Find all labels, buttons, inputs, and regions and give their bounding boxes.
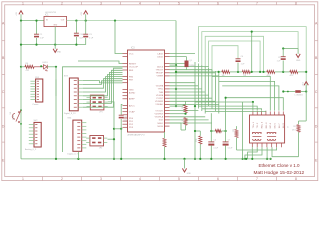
node: [120, 128, 122, 130]
svg-text:LACK: LACK: [157, 52, 163, 55]
svg-text:VDSPA: VDSPA: [156, 94, 164, 97]
svg-text:4: 4: [139, 2, 141, 6]
node: [242, 158, 244, 160]
svg-text:GND: GND: [53, 24, 58, 26]
wire: [170, 105, 186, 106]
svg-text:IN: IN: [46, 20, 48, 22]
svg-text:SH 7: SH 7: [279, 123, 281, 129]
resistor R2: [222, 70, 230, 77]
wire ground rail: [21, 158, 272, 160]
wire: [195, 130, 200, 132]
wire over jack 4: [226, 98, 284, 111]
svg-text:1 uF: 1 uF: [89, 38, 94, 40]
node: [282, 47, 284, 49]
svg-text:27R: 27R: [196, 138, 198, 142]
title text: [259, 163, 301, 168]
svg-text:L4931CZ33: L4931CZ33: [45, 12, 57, 14]
ground GND2: [182, 159, 191, 175]
svg-text:LED1: LED1: [43, 62, 49, 64]
svg-text:2: 2: [61, 2, 63, 6]
resistor R11: [182, 118, 187, 130]
node: [225, 158, 227, 160]
LED LED1: [43, 62, 49, 71]
wire: [251, 32, 253, 72]
wire to jack pin 4: [205, 110, 266, 113]
svg-text:GND: GND: [129, 89, 134, 91]
node: [194, 130, 196, 132]
wire: [251, 147, 253, 159]
svg-text:L1 BLM21: L1 BLM21: [295, 95, 303, 97]
svg-text:16MHz: 16MHz: [189, 65, 195, 67]
wire: [20, 14, 22, 20]
resistor R12: [196, 131, 202, 159]
ferrite bead L1: [295, 90, 303, 96]
resistor R14: [163, 132, 166, 159]
resistor R9: [292, 121, 300, 157]
svg-text:J1: J1: [286, 126, 288, 128]
capacitor C3: [83, 21, 94, 45]
svg-text:5: 5: [178, 177, 180, 181]
frame row and column labels: [2, 2, 318, 181]
svg-text:AREF: AREF: [129, 98, 135, 101]
capacitor C10: [74, 21, 84, 45]
node: [40, 65, 42, 67]
wire: [266, 147, 268, 159]
capacitor C7: [223, 131, 234, 159]
wire bundle digital 8-13 to IC: [83, 68, 123, 107]
node: [252, 101, 254, 103]
svg-text:7: 7: [256, 177, 258, 181]
wire: [221, 130, 225, 132]
svg-text:PB7: PB7: [129, 79, 134, 81]
wire bus loop 2: [202, 32, 298, 65]
svg-text:Analog_0_5: Analog_0_5: [25, 148, 37, 151]
jumper header JP1: [87, 95, 108, 113]
node: [282, 71, 284, 73]
svg-text:VDSPLE: VDSPLE: [154, 114, 163, 116]
svg-text:TRGUP: TRGUP: [155, 73, 163, 75]
svg-text:1 uF: 1 uF: [277, 60, 282, 62]
svg-text:GND: GND: [57, 52, 62, 54]
svg-text:GND: GND: [296, 60, 301, 62]
wire: [77, 152, 79, 159]
node: [194, 105, 196, 107]
crystal Q1: [185, 57, 196, 70]
svg-text:RD+ 3: RD+ 3: [261, 121, 263, 128]
svg-text:C3: C3: [89, 34, 93, 36]
svg-text:GND: GND: [187, 173, 192, 175]
node: [113, 138, 115, 140]
svg-text:TD- 2: TD- 2: [257, 122, 259, 128]
node: [20, 44, 22, 46]
connector SV2 analog header: [25, 120, 41, 151]
svg-text:JP1: JP1: [99, 111, 102, 113]
svg-text:1K: 1K: [182, 118, 184, 121]
node: [194, 158, 196, 160]
node: [225, 130, 227, 132]
wire to jack pin 2: [198, 106, 257, 111]
svg-text:VCAP: VCAP: [129, 111, 135, 114]
wire: [248, 147, 258, 159]
wire: [55, 67, 57, 159]
node: [54, 44, 56, 46]
svg-text:THOUT: THOUT: [156, 70, 164, 72]
svg-text:VDDRW: VDDRW: [155, 101, 164, 103]
svg-text:+9V: +9V: [16, 12, 18, 16]
svg-text:Digital_0_7: Digital_0_7: [67, 153, 78, 156]
svg-text:7: 7: [256, 2, 258, 6]
node: [199, 158, 201, 160]
svg-text:2: 2: [61, 177, 63, 181]
wire: [225, 98, 227, 131]
wire input rail: [21, 20, 44, 22]
resistor R6: [25, 63, 34, 72]
svg-text:Ethernet Clone v 1.0: Ethernet Clone v 1.0: [259, 163, 301, 168]
svg-text:AGND: AGND: [129, 91, 136, 94]
resistor R13: [233, 126, 238, 150]
node: [305, 71, 307, 73]
wire y131: [211, 130, 215, 132]
capacitor C11: [119, 104, 129, 158]
svg-text:Matt Hodge 15-02-2012: Matt Hodge 15-02-2012: [254, 170, 305, 176]
node: [77, 158, 79, 160]
svg-text:C4: C4: [241, 56, 243, 58]
wire: [85, 14, 87, 20]
wire: [175, 72, 177, 106]
node: [120, 158, 122, 160]
svg-text:+5V: +5V: [81, 12, 83, 16]
svg-text:ADC6: ADC6: [157, 65, 164, 68]
svg-text:SCK: SCK: [159, 120, 164, 122]
node: [237, 71, 239, 73]
svg-text:8: 8: [295, 2, 297, 6]
supply +9V arrow: [16, 11, 23, 16]
node: [114, 20, 116, 22]
wire gnd segment: [21, 44, 86, 46]
wire: [20, 21, 22, 67]
wire bus loop 3: [205, 36, 263, 72]
svg-text:VWER: VWER: [157, 76, 164, 78]
node: [251, 31, 253, 33]
node: [259, 71, 261, 73]
ground arrow right: [296, 49, 301, 63]
svg-text:VTODO: VTODO: [155, 110, 163, 112]
wire: [272, 147, 299, 157]
node: [175, 64, 177, 66]
node: [184, 113, 186, 115]
wire: [170, 123, 186, 130]
capacitor C6: [208, 131, 219, 159]
capacitor C9: [277, 57, 286, 72]
svg-text:RD- 6: RD- 6: [266, 122, 268, 128]
microcontroller IC3: [123, 48, 170, 137]
wire over jack 2: [219, 81, 275, 110]
wire +5V feed down: [175, 21, 177, 66]
svg-text:Power: Power: [33, 103, 39, 106]
wire mid row: [176, 71, 222, 73]
wire over jack 1: [215, 76, 270, 110]
svg-text:LBCK: LBCK: [157, 56, 163, 58]
capacitor C1: [34, 21, 44, 45]
wire: [283, 48, 298, 50]
svg-text:OUT: OUT: [61, 20, 66, 22]
wire bus vertical columns: [195, 62, 219, 114]
svg-text:C11: C11: [124, 116, 127, 118]
node: [183, 158, 185, 160]
connector SV4 digital 0-7 header: [67, 118, 86, 156]
resistor R5: [290, 70, 298, 77]
svg-text:RESET: RESET: [13, 113, 15, 120]
svg-text:0.1uF: 0.1uF: [228, 148, 233, 150]
wire: [170, 113, 186, 115]
svg-text:3: 3: [100, 177, 102, 181]
node: [113, 128, 115, 130]
jumper header JP2: [86, 136, 107, 150]
drawing frame: [2, 2, 318, 181]
svg-text:PD3: PD3: [129, 127, 134, 129]
svg-text:1: 1: [22, 177, 24, 181]
node: [175, 88, 177, 90]
node: [262, 71, 264, 73]
capacitor C4: [236, 56, 246, 72]
ethernet jack J1: [250, 111, 288, 147]
node: [245, 158, 247, 160]
svg-text:1uF: 1uF: [79, 37, 83, 39]
svg-text:TD+ 1: TD+ 1: [253, 121, 255, 128]
svg-text:OCULOF: OCULOF: [129, 67, 139, 69]
wire bus loop 1: [198, 27, 306, 92]
svg-text:VDDAU: VDDAU: [155, 103, 163, 106]
wire: [237, 147, 277, 150]
node: [20, 66, 22, 68]
svg-text:SV4: SV4: [67, 118, 72, 120]
node: [0, 0, 1, 1]
voltage regulator IC1: [44, 12, 67, 27]
svg-text:C9: C9: [278, 57, 280, 59]
wire: [242, 102, 244, 159]
wire: [175, 65, 177, 72]
svg-text:8: 8: [295, 177, 297, 181]
svg-text:VCC: VCC: [129, 53, 134, 55]
wire y61: [78, 61, 123, 64]
wire bus loop 5: [212, 46, 238, 74]
node: [251, 158, 253, 160]
wire: [298, 71, 306, 73]
wire to jack pin 3: [202, 109, 262, 111]
wire: [170, 64, 177, 66]
connector SV3 digital 8-13 header: [64, 76, 83, 115]
wire to jack pin 1: [195, 101, 253, 103]
svg-text:Q1: Q1: [189, 60, 192, 62]
svg-text:49.9: 49.9: [290, 75, 294, 77]
node: [175, 71, 177, 73]
node: [175, 105, 177, 107]
svg-text:6: 6: [217, 177, 219, 181]
node: [20, 20, 22, 22]
node: [287, 91, 289, 93]
svg-text:MISO: MISO: [158, 123, 164, 125]
svg-text:PD0: PD0: [129, 118, 134, 120]
svg-text:1: 1: [22, 2, 24, 6]
connector SV1 power header: [30, 77, 42, 106]
node: [210, 158, 212, 160]
svg-text:AVCC: AVCC: [129, 104, 135, 107]
resistor R4: [267, 70, 275, 77]
svg-text:PD1: PD1: [129, 121, 134, 123]
wire: [301, 91, 306, 93]
svg-text:ATMEGA328P-PU: ATMEGA328P-PU: [128, 133, 146, 136]
resistor R10: [182, 101, 187, 114]
node: [210, 130, 212, 132]
svg-text:Digital_8_13: Digital_8_13: [64, 112, 76, 115]
svg-text:0.1uF: 0.1uF: [214, 148, 219, 150]
node: [305, 90, 307, 92]
wire: [210, 113, 212, 131]
svg-text:NC 5: NC 5: [275, 122, 277, 128]
svg-text:IC3: IC3: [131, 48, 135, 50]
ground GND1: [53, 45, 62, 54]
wire over jack 3: [222, 86, 279, 111]
node: [75, 44, 77, 46]
svg-text:27R: 27R: [233, 128, 235, 132]
svg-text:SV3: SV3: [64, 76, 69, 78]
svg-text:SH 8: SH 8: [283, 123, 285, 129]
svg-text:PCINT: PCINT: [157, 98, 164, 100]
node: [113, 158, 115, 160]
svg-text:SV2: SV2: [34, 120, 39, 122]
wire bus loop 4: [209, 41, 261, 72]
wire: [252, 102, 254, 111]
node: [218, 71, 220, 73]
node: [270, 158, 272, 160]
wire: [305, 92, 307, 122]
svg-text:6: 6: [217, 2, 219, 6]
supply +5V arrow: [81, 11, 88, 16]
svg-text:R6: R6: [26, 63, 30, 65]
svg-text:THB: THB: [159, 92, 164, 94]
resistor R3: [242, 70, 250, 77]
svg-text:5: 5: [178, 2, 180, 6]
supply +3V3 arrow: [303, 82, 309, 92]
wire: [55, 80, 57, 97]
wire: [54, 27, 56, 45]
wire reset net: [47, 66, 56, 68]
svg-text:R9: R9: [293, 126, 295, 128]
node: [163, 158, 165, 160]
switch S1: [10, 109, 22, 125]
node: [251, 71, 253, 73]
node: [55, 66, 57, 68]
svg-text:C6: C6: [214, 140, 216, 142]
wire reset long: [63, 67, 123, 152]
svg-text:4: 4: [139, 177, 141, 181]
wire bundle IC right pins: [170, 54, 219, 124]
wire: [230, 71, 243, 73]
node: [85, 20, 87, 22]
node: [266, 158, 268, 160]
svg-text:REF: REF: [129, 70, 134, 72]
wire: [299, 120, 307, 122]
node: [55, 158, 57, 160]
svg-text:470: 470: [26, 70, 30, 72]
wire: [245, 147, 262, 159]
svg-text:PD2: PD2: [129, 124, 134, 126]
node: [35, 20, 37, 22]
resistor R15: [215, 130, 221, 133]
svg-text:C1: C1: [40, 34, 44, 36]
node: [35, 44, 37, 46]
node: [244, 158, 246, 160]
wire: [20, 67, 22, 159]
svg-text:C7: C7: [228, 140, 230, 142]
wire JP2 stub: [108, 138, 115, 140]
wire: [34, 66, 43, 68]
wire: [250, 71, 266, 73]
wire +5V rail: [67, 20, 177, 22]
svg-text:49.9: 49.9: [292, 130, 296, 132]
svg-text:+3V3: +3V3: [303, 82, 305, 86]
svg-text:1 uF: 1 uF: [241, 64, 246, 66]
node: [75, 20, 77, 22]
wire: [275, 71, 290, 73]
svg-text:TPSL: TPSL: [158, 89, 164, 91]
node: [225, 97, 227, 99]
svg-text:RESET: RESET: [129, 63, 137, 65]
svg-text:NC 4: NC 4: [270, 122, 272, 128]
svg-text:JP2: JP2: [99, 147, 102, 149]
wire: [282, 49, 284, 57]
svg-text:1 uF: 1 uF: [40, 38, 45, 40]
wire JP1 to vertical: [108, 102, 114, 159]
wire +5V to IC3 VCC: [115, 21, 123, 54]
svg-text:S1: S1: [10, 111, 12, 114]
node: [282, 90, 284, 92]
wire: [212, 75, 215, 77]
wire bridge: [114, 128, 121, 130]
author text: [254, 170, 305, 176]
svg-text:PB6: PB6: [129, 76, 134, 78]
svg-text:3: 3: [100, 2, 102, 6]
svg-text:MOSI: MOSI: [158, 126, 164, 128]
wire: [283, 91, 295, 93]
svg-text:VDDPA: VDDPA: [156, 85, 164, 88]
svg-text:VXSPLA: VXSPLA: [155, 116, 164, 119]
wire: [194, 106, 196, 159]
wire: [21, 66, 26, 68]
